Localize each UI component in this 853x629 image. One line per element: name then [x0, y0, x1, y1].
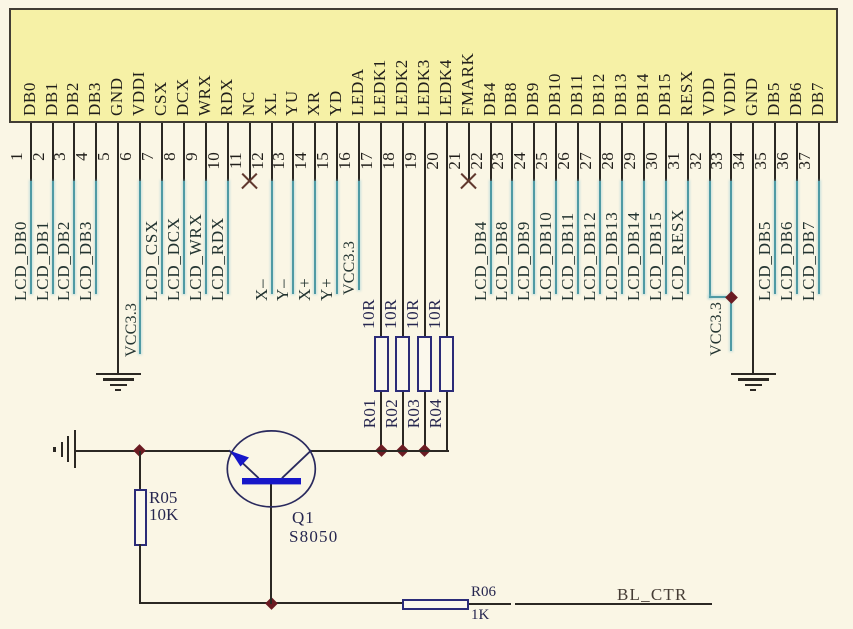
wire net LCD_DB1	[52, 181, 54, 294]
pin 14 number	[292, 152, 310, 170]
wire net LCD_DCX	[183, 181, 185, 294]
wire R02 bottom lead	[402, 392, 404, 450]
junction base lead / bottom rail	[265, 597, 278, 610]
net label LCD_DB12	[581, 211, 599, 301]
pin 34 wire to ground	[752, 123, 754, 374]
pin 12 name XL	[262, 92, 280, 116]
pin 20 name LEDK4	[437, 59, 455, 116]
wire emitter (ground to Q1)	[75, 450, 230, 452]
pin 35 name DB5	[765, 82, 783, 116]
net label BL_CTR	[617, 586, 688, 603]
pin 11 stub (no connect)	[249, 123, 251, 180]
net label Y+	[318, 278, 336, 301]
pin 10 number	[205, 152, 223, 170]
net label LCD_DB11	[559, 212, 577, 301]
pin 19 wire to resistor R03	[424, 123, 426, 336]
pin 8 name DCX	[174, 78, 192, 116]
pin 37 name DB7	[809, 82, 827, 116]
pin 1 stub	[30, 123, 32, 181]
wire net VCC3.3 (pin 33)	[730, 181, 732, 351]
pin 2 stub	[52, 123, 54, 181]
pin 21 name FMARK	[459, 53, 477, 116]
ground (pin 34 GND)	[731, 373, 776, 375]
pin 6 name VDDI	[130, 71, 148, 116]
pin 6 number	[117, 152, 135, 161]
net label VCC3.3 (pin 33)	[708, 302, 726, 356]
pin 28 name DB13	[612, 73, 630, 116]
pin 13 stub	[292, 123, 294, 181]
pin 21 number	[446, 152, 464, 170]
pin 19 number	[402, 152, 420, 170]
pin 33 stub	[730, 123, 732, 181]
resistor R03 body	[417, 336, 432, 392]
pin 29 stub	[643, 123, 645, 181]
pin 3 number	[51, 152, 69, 161]
pin 27 number	[577, 152, 595, 170]
wire net LCD_DB8	[511, 181, 513, 294]
junction VDD/VDDI	[725, 291, 738, 304]
transistor Q1	[215, 420, 327, 520]
net label Y–	[274, 279, 292, 301]
wire net LCD_RDX	[227, 181, 229, 294]
pin 22 stub	[490, 123, 492, 181]
pin 24 stub	[533, 123, 535, 181]
net label LCD_DB1	[34, 221, 52, 301]
pin 32 number	[687, 152, 705, 170]
pin 34 name GND	[743, 77, 761, 116]
wire net LCD_DB9	[533, 181, 535, 294]
wire R05 top lead	[139, 451, 141, 489]
net label LCD_DB2	[55, 221, 73, 301]
net label LCD_DB15	[647, 211, 665, 301]
junction R03 / collector wire	[418, 445, 431, 458]
pin 30 stub	[665, 123, 667, 181]
pin 18 name LEDK2	[393, 59, 411, 116]
net label X–	[253, 279, 271, 301]
wire net LCD_DB12	[599, 181, 601, 294]
pin 23 name DB8	[502, 82, 520, 116]
pin 16 name LEDA	[349, 68, 367, 116]
net label LCD_DB10	[537, 211, 555, 301]
wire net LCD_DB7	[818, 181, 820, 294]
wire net BL_CTR	[515, 603, 712, 605]
wire net LCD_DB3	[95, 181, 97, 294]
wire net LCD_DB4	[490, 181, 492, 294]
value label 10R (R04)	[426, 299, 444, 329]
wire net X–	[271, 181, 273, 294]
wire net LCD_DB11	[577, 181, 579, 294]
pin 4 name DB3	[86, 82, 104, 116]
pin 25 number	[533, 152, 551, 170]
net label LCD_DB13	[603, 211, 621, 301]
ref label R05	[149, 489, 177, 506]
wire net LCD_CSX	[161, 181, 163, 294]
pin 7 stub	[161, 123, 163, 181]
net label LCD_DB7	[800, 221, 818, 301]
wire net LCD_DB6	[796, 181, 798, 294]
pin 24 name DB9	[524, 82, 542, 116]
pin 9 name WRX	[196, 75, 214, 116]
wire net LCD_DB2	[73, 181, 75, 294]
wire net LCD_DB10	[555, 181, 557, 294]
value label 10R (R03)	[404, 299, 422, 329]
pin 14 stub	[314, 123, 316, 181]
pin 17 wire to resistor R01	[380, 123, 382, 336]
wire net LCD_DB15	[665, 181, 667, 294]
pin 17 name LEDK1	[371, 59, 389, 116]
pin 15 name YD	[327, 90, 345, 116]
pin 17 number	[358, 152, 376, 170]
pin 12 number	[249, 152, 267, 170]
ref label R03	[405, 399, 423, 428]
wire net X+	[314, 181, 316, 294]
pin 19 name LEDK3	[415, 59, 433, 116]
value label 10R (R01)	[360, 299, 378, 329]
Q1 body circle	[227, 431, 315, 507]
pin 33 name VDDI	[721, 71, 739, 116]
wire R03 bottom lead	[424, 392, 426, 450]
wire R01 bottom lead	[380, 392, 382, 450]
pin 10 name RDX	[218, 78, 236, 116]
pin 37 number	[796, 152, 814, 170]
pin 28 number	[599, 152, 617, 170]
net label LCD_DB9	[515, 221, 533, 301]
net label LCD_CSX	[143, 220, 161, 301]
ref label R02	[383, 399, 401, 428]
pin 23 number	[489, 152, 507, 170]
wire net VCC3.3 (pin 6)	[139, 181, 141, 354]
net label LCD_DB5	[756, 221, 774, 301]
pin 15 number	[314, 152, 332, 170]
pin 28 stub	[621, 123, 623, 181]
pin 26 number	[555, 152, 573, 170]
wire net Y–	[292, 181, 294, 294]
ground (pin 5 GND)	[96, 373, 141, 375]
pin 8 number	[161, 152, 179, 161]
pin 11 number	[227, 152, 245, 169]
pin 10 stub	[227, 123, 229, 181]
wire net LCD_RESX	[687, 181, 689, 294]
pin 31 stub	[687, 123, 689, 181]
pin 15 stub	[336, 123, 338, 181]
pin 25 name DB10	[546, 73, 564, 116]
ref label Q1	[292, 509, 315, 526]
pin 4 stub	[95, 123, 97, 181]
resistor R01 body	[374, 336, 389, 392]
no-connect X mark pin 21	[460, 173, 477, 190]
net label VCC3.3	[341, 241, 359, 295]
junction R01 / collector wire	[375, 445, 388, 458]
pin 23 stub	[511, 123, 513, 181]
pin 29 name DB14	[634, 73, 652, 116]
pin 36 stub	[796, 123, 798, 181]
Q1 emitter arrow	[231, 451, 250, 467]
pin 25 stub	[555, 123, 557, 181]
pin 8 stub	[183, 123, 185, 181]
pin 13 name YU	[283, 90, 301, 116]
pin 14 name XR	[305, 91, 323, 116]
junction R05 / emitter wire	[133, 445, 146, 458]
pin 6 stub	[139, 123, 141, 181]
net label VCC3.3 (pin 6)	[123, 303, 141, 357]
wire bottom rail (R05 to R06)	[139, 602, 403, 604]
pin 29 number	[621, 152, 639, 170]
pin 5 name GND	[108, 77, 126, 116]
connector J1 body	[9, 8, 838, 123]
junction R02 / collector wire	[397, 445, 410, 458]
wire net LCD_DB0	[30, 181, 32, 294]
pin 18 wire to resistor R02	[402, 123, 404, 336]
pin 35 number	[752, 152, 770, 170]
Q1 emitter diagonal	[229, 450, 259, 478]
net label LCD_DB4	[472, 221, 490, 301]
net label LCD_DCX	[165, 217, 183, 301]
wire R06 right lead	[469, 603, 512, 605]
value label 1K	[471, 607, 489, 624]
pin 3 name DB2	[64, 82, 82, 116]
resistor R05 body	[134, 489, 147, 546]
pin 3 stub	[73, 123, 75, 181]
wire net VCC3.3	[358, 181, 360, 290]
wire R04 bottom lead	[446, 392, 448, 450]
wire net LCD_DB14	[643, 181, 645, 294]
pin 5 number	[95, 152, 113, 161]
wire net VCC3.3 (pin 32 vertical)	[709, 181, 711, 298]
Q1 collector diagonal	[282, 450, 312, 478]
net label X+	[296, 278, 314, 301]
pin 9 stub	[205, 123, 207, 181]
pin 18 number	[380, 152, 398, 170]
wire collector (Q1 to resistors)	[310, 450, 449, 452]
net label LCD_DB6	[778, 221, 796, 301]
pin 30 name DB15	[656, 73, 674, 116]
pin 36 name DB6	[787, 82, 805, 116]
pin 34 number	[730, 152, 748, 170]
pin 12 stub	[271, 123, 273, 181]
pin 2 number	[30, 152, 48, 161]
resistor R02 body	[395, 336, 410, 392]
pin 35 stub	[774, 123, 776, 181]
net label LCD_WRX	[187, 213, 205, 301]
value label 10R (R02)	[382, 299, 400, 329]
pin 5 wire to ground	[117, 123, 119, 374]
net label LCD_DB8	[493, 221, 511, 301]
wire net LCD_WRX	[205, 181, 207, 294]
pin 26 stub	[577, 123, 579, 181]
pin 4 number	[73, 152, 91, 161]
pin 9 number	[183, 152, 201, 161]
pin 27 stub	[599, 123, 601, 181]
wire net Y+	[336, 181, 338, 294]
pin 31 name RESX	[678, 70, 696, 116]
net label LCD_DB14	[625, 211, 643, 301]
pin 30 number	[643, 152, 661, 170]
pin 31 number	[665, 152, 683, 170]
wire R05 bottom lead	[139, 544, 141, 604]
pin 32 name VDD	[700, 77, 718, 116]
pin 11 name NC	[240, 91, 258, 116]
no-connect X mark pin 11	[241, 173, 258, 190]
pin 16 stub	[358, 123, 360, 181]
pin 36 number	[774, 152, 792, 170]
ref label R06	[471, 584, 496, 601]
pin 37 stub	[818, 123, 820, 181]
pin 21 stub (no connect)	[468, 123, 470, 180]
wire Q1 base lead	[270, 483, 272, 604]
pin 22 number	[468, 152, 486, 170]
value label 10K	[149, 506, 178, 523]
pin 7 name CSX	[152, 81, 170, 116]
pin 22 name DB4	[481, 82, 499, 116]
pin 1 number	[8, 152, 26, 161]
pin 7 number	[139, 152, 157, 161]
resistor R04 body	[439, 336, 454, 392]
wire net LCD_DB5	[774, 181, 776, 294]
pin 27 name DB12	[590, 73, 608, 116]
wire net VCC3.3 (pin 32 horizontal)	[709, 296, 733, 298]
pin 1 name DB0	[21, 82, 39, 116]
value label S8050	[289, 528, 338, 545]
pin 32 stub	[709, 123, 711, 181]
ref label R01	[361, 399, 379, 428]
pin 33 number	[708, 152, 726, 170]
pin 20 number	[424, 152, 442, 170]
wire net LCD_DB13	[621, 181, 623, 294]
ref label R04	[427, 399, 445, 428]
pin 24 number	[511, 152, 529, 170]
resistor R06 body	[402, 599, 469, 610]
net label LCD_DB3	[77, 221, 95, 301]
pin 16 number	[336, 152, 354, 170]
pin 2 name DB1	[43, 82, 61, 116]
pin 26 name DB11	[568, 74, 586, 116]
Q1 base bar	[242, 478, 301, 484]
net label LCD_DB0	[12, 221, 30, 301]
pin 20 wire to resistor R04	[446, 123, 448, 336]
pin 13 number	[270, 152, 288, 170]
net label LCD_RDX	[209, 217, 227, 301]
ground (emitter, rotated left)	[74, 430, 76, 468]
net label LCD_RESX	[669, 209, 687, 301]
